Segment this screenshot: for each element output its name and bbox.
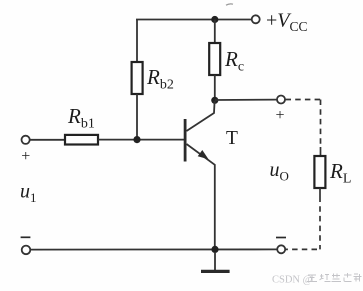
terminal output - bbox=[277, 245, 285, 253]
svg-text:Rb1: Rb1 bbox=[67, 104, 95, 132]
svg-text:+VCC: +VCC bbox=[266, 10, 308, 35]
terminal output + bbox=[277, 96, 285, 104]
svg-text:CSDN @: CSDN @ bbox=[272, 275, 313, 286]
transistor T base bar bbox=[184, 119, 187, 162]
wire collector to output terminal bbox=[215, 99, 277, 101]
resistor Rc bbox=[209, 43, 220, 75]
node collector junction bbox=[211, 97, 218, 104]
node base junction bbox=[133, 136, 140, 143]
svg-text:uO: uO bbox=[270, 159, 289, 184]
svg-text:+: + bbox=[21, 148, 30, 165]
wire Rb2 bottom to base node bbox=[136, 94, 138, 140]
svg-text:RL: RL bbox=[329, 159, 351, 187]
node top junction (Rc / VCC) bbox=[211, 16, 218, 23]
wire Rb1 to base bbox=[98, 139, 185, 141]
watermark CSDN bbox=[272, 273, 362, 286]
svg-text:T: T bbox=[226, 128, 238, 149]
label +VCC value bbox=[266, 10, 308, 35]
label uO output voltage bbox=[270, 159, 289, 184]
wire Rc bottom to collector node bbox=[214, 75, 216, 100]
node emitter/ground junction bbox=[211, 246, 218, 253]
resistor Rb1 bbox=[65, 135, 98, 145]
transistor T emitter arrow bbox=[198, 150, 209, 159]
stray pen mark top bbox=[226, 4, 233, 5]
wire Rb2 top branch bbox=[136, 20, 138, 63]
svg-text:u1: u1 bbox=[20, 181, 37, 206]
ground bbox=[201, 252, 230, 271]
label Rb1 bbox=[67, 104, 95, 132]
transistor T collector lead bbox=[187, 101, 215, 131]
wire top rail bbox=[136, 19, 252, 21]
label RL bbox=[329, 159, 351, 187]
terminal input - bbox=[22, 246, 31, 255]
label u1 input voltage bbox=[20, 181, 37, 206]
wire input terminal to Rb1 bbox=[30, 139, 65, 141]
terminal input + bbox=[22, 136, 30, 144]
label Rb2 bbox=[146, 65, 174, 93]
wire bottom rail bbox=[30, 248, 277, 250]
label output minus sign bbox=[276, 237, 286, 239]
wire Rc top branch bbox=[214, 20, 216, 44]
transistor T emitter lead bbox=[187, 144, 215, 250]
label T bbox=[226, 128, 238, 149]
svg-text:Rc: Rc bbox=[224, 47, 244, 75]
wire dashed RL bottom to output - bbox=[285, 188, 320, 249]
terminal +VCC bbox=[252, 15, 260, 23]
resistor Rb2 bbox=[132, 62, 143, 94]
label output plus sign bbox=[275, 107, 284, 124]
resistor RL bbox=[314, 156, 325, 188]
label input minus sign bbox=[21, 236, 31, 238]
svg-text:Rb2: Rb2 bbox=[146, 65, 174, 93]
svg-text:+: + bbox=[275, 107, 284, 124]
label input plus sign bbox=[21, 148, 30, 165]
label Rc bbox=[224, 47, 244, 75]
wire dashed output top to RL bbox=[286, 100, 321, 157]
